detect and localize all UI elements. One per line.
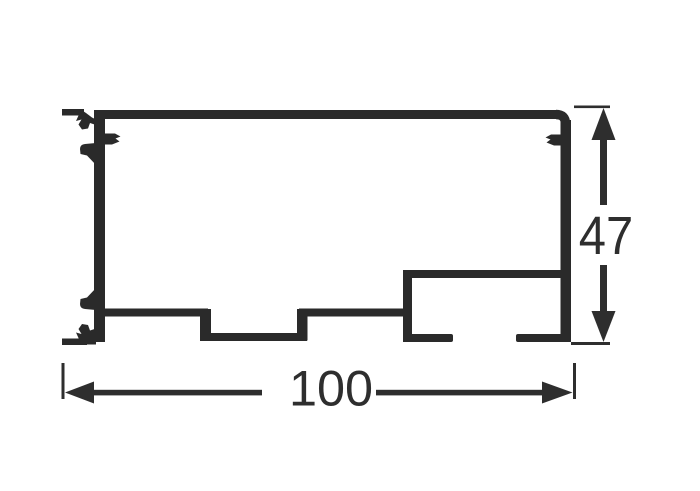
profile bottom web with step channel	[94, 313, 408, 338]
dim 47 bottom tick	[571, 342, 610, 345]
svg-text:47: 47	[579, 205, 633, 266]
step-down vertical	[201, 309, 212, 341]
dim 47 upper extension line	[600, 138, 607, 205]
svg-text:100: 100	[289, 361, 373, 417]
dim 100 right tick	[573, 363, 576, 399]
profile top-right corner	[556, 115, 566, 125]
top-left flange bar	[62, 109, 84, 116]
profile left wall	[94, 110, 105, 342]
top-left hook beak	[76, 109, 96, 130]
bottom-left flange bar	[62, 339, 87, 346]
dim 100 right line	[376, 390, 542, 396]
bottom-left hook web fill	[79, 333, 96, 345]
profile right foot	[516, 334, 571, 342]
dim 47 top arrowhead	[592, 108, 616, 140]
dim 47 bottom arrowhead	[592, 311, 616, 342]
step-up vertical	[297, 309, 308, 341]
dim 100 left line	[92, 390, 262, 396]
dim 47 lower extension line	[600, 265, 607, 314]
left inner tab	[105, 134, 121, 145]
profile right wall	[561, 120, 572, 342]
right inner tab	[546, 135, 562, 146]
channel left foot	[403, 334, 453, 342]
dim 47 top tick	[574, 106, 610, 109]
dim 100 left arrowhead	[65, 382, 94, 404]
channel top shelf	[403, 270, 571, 278]
left outer hook upper	[80, 143, 96, 165]
left outer hook lower	[80, 288, 96, 310]
profile top wall	[94, 110, 558, 119]
channel vertical rib	[403, 270, 412, 342]
dim 100 right arrowhead	[542, 382, 573, 404]
dim 100 left tick	[62, 363, 65, 399]
bottom-left hook beak	[76, 324, 96, 345]
